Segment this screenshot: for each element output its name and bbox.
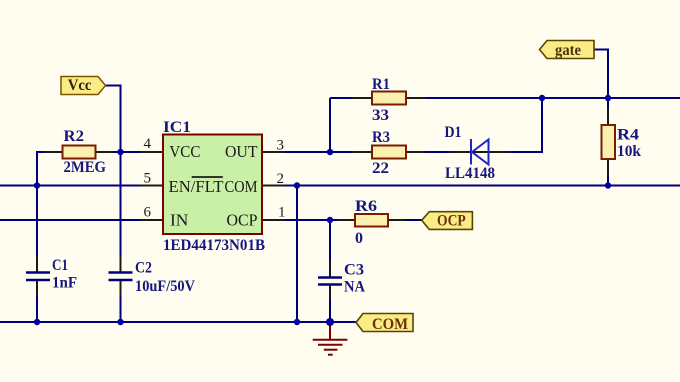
capacitor C2 plates xyxy=(109,273,133,281)
wire: vertical x=297 from COM row to bottom rail xyxy=(296,186,298,323)
diode D1 symbol xyxy=(471,139,489,165)
port OCP flag xyxy=(422,212,473,230)
junction node bottom rail C1 xyxy=(34,319,40,325)
svg-text:IN: IN xyxy=(170,211,188,230)
svg-text:D1: D1 xyxy=(445,124,462,141)
junction node at EN row / C1 branch xyxy=(34,182,40,188)
svg-text:22: 22 xyxy=(372,160,389,177)
wire: OCP pin 1 row from IC to R6 and OCP flag xyxy=(262,219,423,221)
op-amp IC1 body xyxy=(163,135,262,235)
svg-text:OCP: OCP xyxy=(437,213,466,230)
svg-text:C2: C2 xyxy=(135,260,152,277)
svg-text:2: 2 xyxy=(277,171,285,187)
pin stubs D1 xyxy=(450,151,510,153)
port COM flag xyxy=(356,314,413,334)
junction node diode-R1 x=542 xyxy=(539,95,545,101)
resistor R4 body (vertical) xyxy=(602,125,616,159)
svg-text:2MEG: 2MEG xyxy=(64,159,107,176)
pin stubs IC left xyxy=(140,152,163,220)
wire: vertical x=330 from OCP row through C3 to bottom rail xyxy=(329,220,331,322)
junction node bottom rail ground xyxy=(326,318,334,326)
svg-text:COM: COM xyxy=(225,177,258,196)
wire: vertical x=37 from R2 row through C1 to bottom rail xyxy=(36,151,38,322)
svg-text:C1: C1 xyxy=(52,257,68,274)
resistor R1 body xyxy=(372,92,406,105)
junction node bottom rail C2 xyxy=(117,319,123,325)
junction node gate/R1/R4 x=608 xyxy=(605,95,611,101)
svg-text:1ED44173N01B: 1ED44173N01B xyxy=(163,237,265,254)
pin stubs R6 xyxy=(338,219,405,221)
junction node COM row x=297 xyxy=(294,182,300,188)
svg-text:EN/FLT: EN/FLT xyxy=(169,177,224,196)
svg-text:1: 1 xyxy=(278,205,286,221)
pin stubs C1 xyxy=(36,256,38,296)
wire: R1 row y=98 from x=330 to right edge xyxy=(330,97,680,99)
svg-text:6: 6 xyxy=(144,205,152,221)
pin stubs C2 xyxy=(120,256,122,296)
overline over FLT xyxy=(192,176,223,178)
svg-text:R6: R6 xyxy=(355,198,377,215)
capacitor C3 plates xyxy=(318,278,342,285)
wire: Vcc flag lead to corner x=120.5 xyxy=(105,85,121,87)
wire: IN row from left edge to IC pin 6 xyxy=(0,219,163,221)
junction node bottom rail x=297 xyxy=(294,319,300,325)
resistor R2 body xyxy=(63,146,96,159)
wire: bottom rail y=322 from left edge to COM flag xyxy=(0,321,356,323)
svg-text:4: 4 xyxy=(144,136,152,152)
junction node at R2/C2/Vcc xyxy=(117,149,123,155)
svg-text:0: 0 xyxy=(355,230,363,247)
svg-text:VCC: VCC xyxy=(169,142,200,161)
svg-text:NA: NA xyxy=(344,279,365,296)
ground symbol xyxy=(313,322,348,355)
svg-text:10uF/50V: 10uF/50V xyxy=(135,278,195,295)
svg-text:COM: COM xyxy=(372,316,408,333)
wire: EN/FLT row from left edge to IC pin 5 xyxy=(0,185,163,187)
svg-text:3: 3 xyxy=(277,138,285,154)
port gate flag xyxy=(540,41,595,60)
pin stubs R4 xyxy=(607,108,609,176)
wire: vertical x=542 diode row up to R1 row xyxy=(541,98,543,153)
resistor R6 body xyxy=(355,214,388,227)
junction node at OUT/R1 branch xyxy=(327,149,333,155)
capacitor C1 plates xyxy=(26,273,50,281)
svg-text:R4: R4 xyxy=(617,127,639,144)
svg-text:33: 33 xyxy=(372,107,389,124)
svg-text:R2: R2 xyxy=(64,128,85,145)
pin stubs R3 xyxy=(352,151,426,153)
pin stubs R2 xyxy=(45,151,113,153)
wire: vertical x=330 OUT row up to R1 row xyxy=(329,98,331,153)
wire: OUT pin 3 row to R3 and diode D1 xyxy=(262,151,542,153)
resistor R3 body xyxy=(372,146,406,159)
svg-text:R1: R1 xyxy=(372,76,390,93)
svg-text:1nF: 1nF xyxy=(52,275,77,292)
junction node OCP row / C3 branch xyxy=(327,217,333,223)
svg-text:C3: C3 xyxy=(344,262,364,279)
pin stubs R1 xyxy=(352,97,426,99)
svg-text:5: 5 xyxy=(144,171,152,187)
svg-text:10k: 10k xyxy=(617,143,641,160)
svg-text:IC1: IC1 xyxy=(163,119,191,136)
svg-text:R3: R3 xyxy=(372,129,390,146)
svg-text:OUT: OUT xyxy=(225,142,258,161)
wire: COM pin 2 row from IC to right edge xyxy=(262,185,680,187)
wire: gate flag lead and vertical x=608 through R4 to COM row xyxy=(594,50,608,186)
svg-text:OCP: OCP xyxy=(227,211,258,230)
power port Vcc flag xyxy=(61,77,106,95)
pin stubs C3 xyxy=(329,260,331,300)
svg-text:Vcc: Vcc xyxy=(68,77,92,94)
wire: R2 row y=152 from x=37 to IC pin 4 xyxy=(37,151,163,153)
junction node R4 bottom / COM row xyxy=(605,182,611,188)
svg-text:gate: gate xyxy=(555,42,581,59)
wire: vertical x=120.5 from Vcc corner through C2 to bottom rail xyxy=(120,85,122,323)
pin stubs IC right xyxy=(262,152,285,220)
svg-text:LL4148: LL4148 xyxy=(445,165,495,182)
